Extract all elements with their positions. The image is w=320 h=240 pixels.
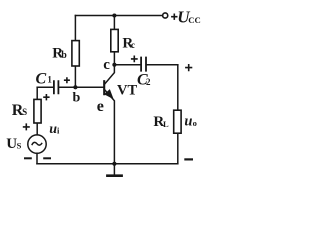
svg-text:S: S [22,107,27,117]
svg-text:L: L [163,119,169,129]
svg-text:e: e [97,98,104,115]
svg-text:u: u [49,122,57,137]
svg-text:u: u [184,114,192,130]
svg-text:b: b [61,50,67,61]
svg-text:1: 1 [47,75,52,85]
svg-text:VT: VT [117,83,137,99]
svg-text:o: o [193,118,197,128]
svg-text:S: S [17,140,22,150]
svg-text:b: b [73,91,81,106]
svg-text:2: 2 [146,77,151,87]
svg-text:C: C [36,71,47,88]
svg-text:CC: CC [188,15,201,25]
svg-text:c: c [131,40,135,50]
svg-text:c: c [103,57,110,73]
